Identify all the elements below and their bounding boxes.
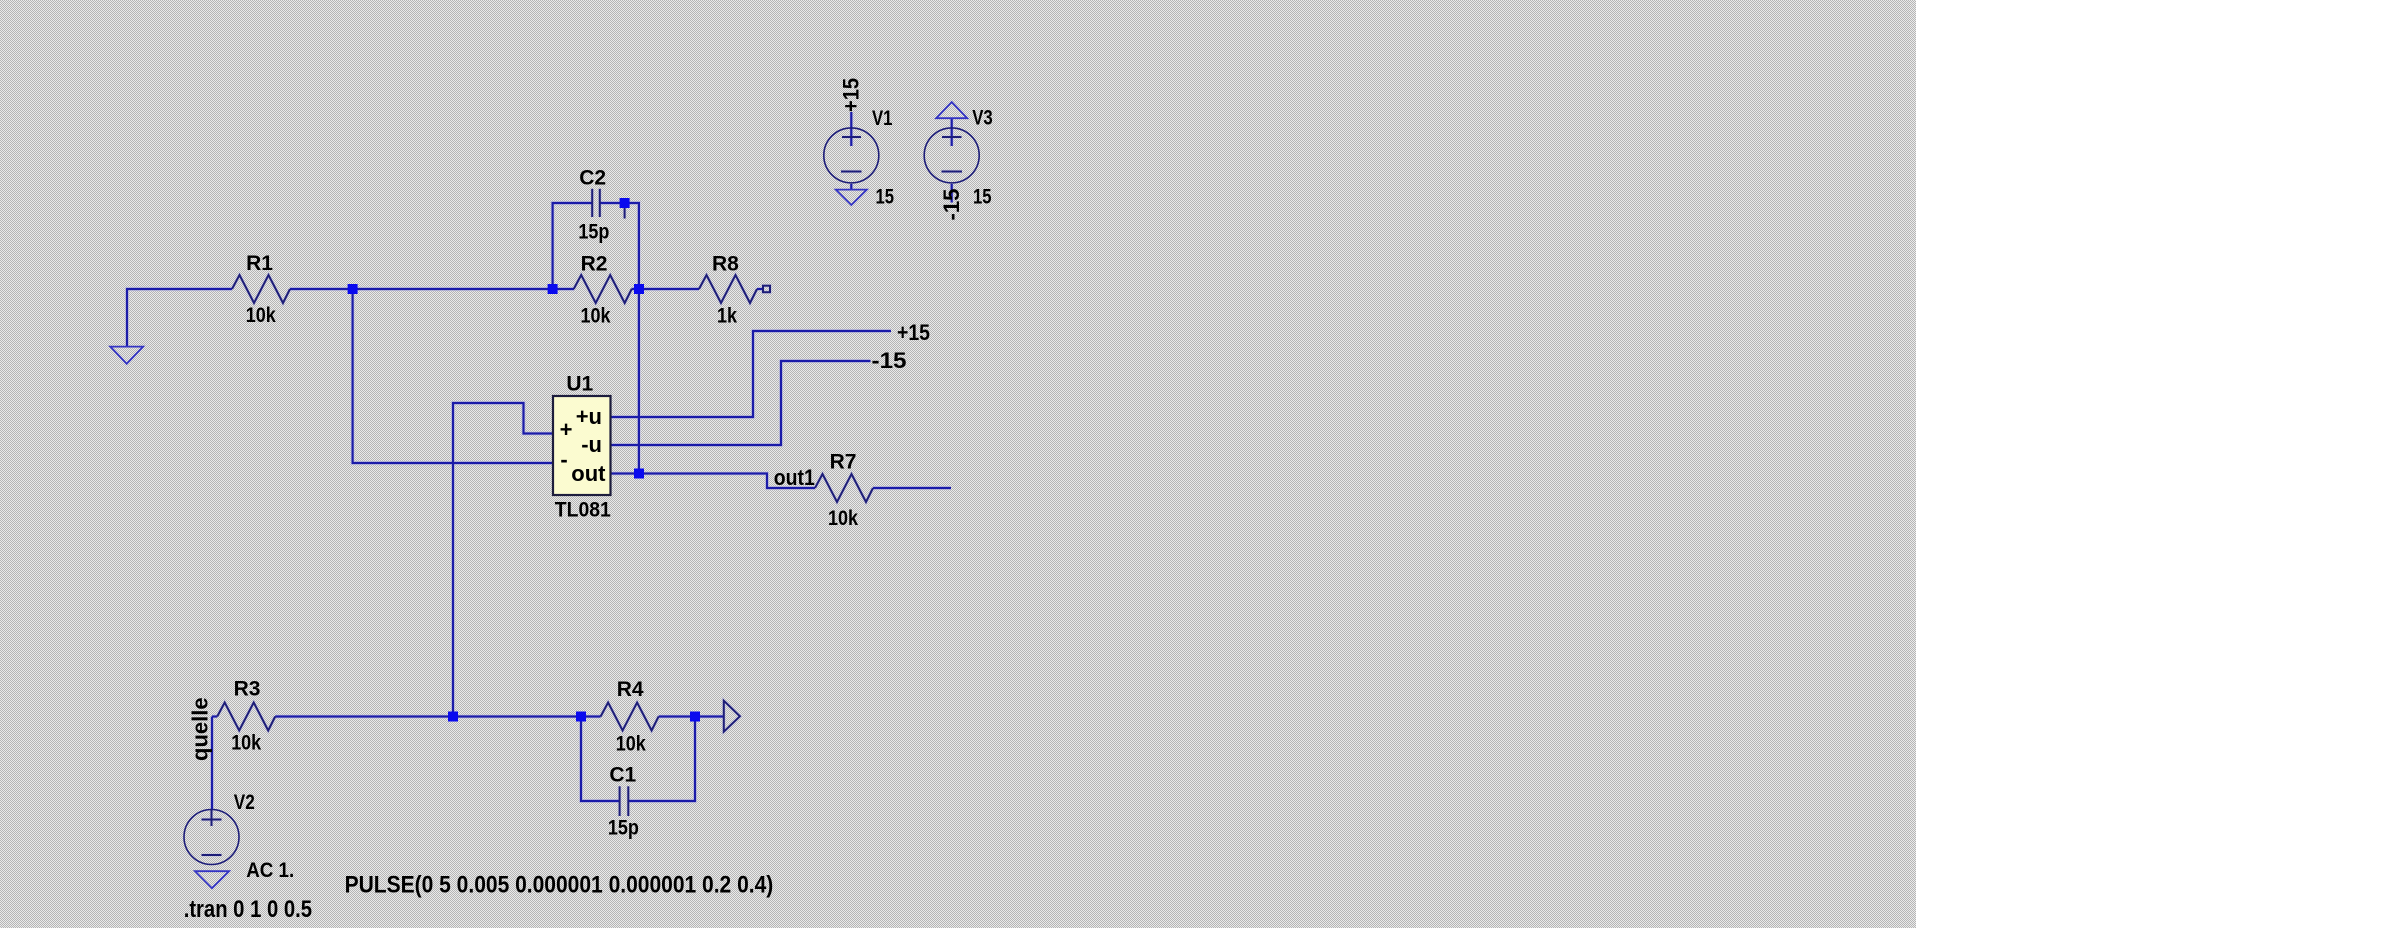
svg-text:10k: 10k [828, 507, 858, 530]
svg-text:-: - [560, 447, 567, 472]
svg-text:R4: R4 [617, 678, 644, 701]
svg-text:C2: C2 [579, 166, 606, 189]
svg-text:-15: -15 [872, 348, 907, 373]
svg-text:out: out [571, 461, 606, 486]
svg-text:10k: 10k [616, 732, 646, 755]
svg-text:1k: 1k [717, 304, 737, 327]
svg-text:U1: U1 [566, 373, 593, 396]
svg-text:-u: -u [581, 432, 602, 457]
svg-text:+: + [560, 417, 573, 442]
svg-text:AC 1.: AC 1. [246, 859, 294, 882]
svg-text:R7: R7 [830, 451, 857, 474]
svg-text:R2: R2 [581, 253, 608, 276]
svg-text:PULSE(0 5 0.005 0.000001 0.000: PULSE(0 5 0.005 0.000001 0.000001 0.2 0.… [345, 872, 774, 899]
svg-text:-15: -15 [939, 189, 964, 221]
svg-text:C1: C1 [609, 763, 636, 786]
svg-text:TL081: TL081 [555, 498, 611, 521]
svg-text:15p: 15p [578, 220, 609, 243]
svg-text:R1: R1 [246, 252, 273, 275]
svg-text:R8: R8 [712, 253, 739, 276]
svg-text:V2: V2 [234, 791, 255, 814]
svg-text:10k: 10k [246, 304, 276, 327]
svg-text:15: 15 [876, 186, 895, 209]
svg-text:R3: R3 [234, 677, 261, 700]
svg-text:.tran 0 1 0 0.5: .tran 0 1 0 0.5 [184, 896, 312, 923]
svg-text:V3: V3 [972, 107, 993, 130]
svg-text:+15: +15 [839, 78, 864, 112]
svg-text:V1: V1 [872, 107, 893, 130]
svg-text:15: 15 [973, 186, 992, 209]
svg-text:+15: +15 [897, 320, 930, 345]
svg-text:+u: +u [576, 404, 602, 429]
svg-text:10k: 10k [231, 732, 261, 755]
svg-text:15p: 15p [608, 817, 639, 840]
svg-text:10k: 10k [581, 304, 611, 327]
svg-text:quelle: quelle [188, 697, 213, 761]
svg-text:out1: out1 [774, 465, 815, 490]
